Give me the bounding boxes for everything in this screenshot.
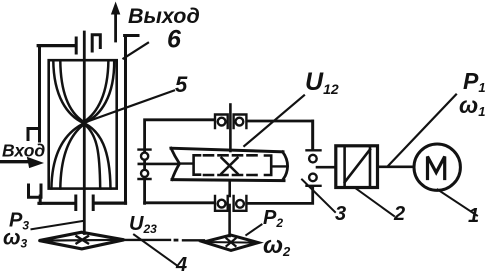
top bearing left (215, 115, 228, 129)
cone curve lower outer-right (84, 123, 110, 188)
variator housing top right stub (125, 34, 138, 37)
dashed box bottom edge (204, 174, 261, 177)
lower clutch right tick (92, 196, 95, 210)
cone curve lower inner-left (60, 124, 84, 188)
svg-text:ω1: ω1 (459, 92, 485, 119)
svg-text:P1: P1 (463, 68, 486, 95)
leader 3 (302, 180, 335, 213)
variator housing bottom horizontal left (39, 202, 75, 205)
differential frame top left (145, 120, 214, 204)
leader P1 (388, 95, 456, 167)
left bearing ticks (139, 150, 151, 179)
differential frame bottom right (248, 188, 313, 203)
differential carrier shaft top (229, 105, 232, 152)
output arrow (114, 10, 117, 41)
coupling box (element 2) (336, 146, 378, 188)
leader P3 (32, 221, 85, 229)
vertical shaft diff to bevel (228, 205, 231, 236)
bevel gear pair right (204, 235, 259, 250)
upper clutch left tick (75, 38, 78, 53)
right bearing circles (309, 155, 317, 163)
cone curve upper outer-right (84, 61, 114, 124)
cone curve lower inner-right (84, 124, 100, 188)
lower clutch left tick (74, 196, 77, 210)
leader 4 (134, 235, 177, 266)
svg-text:5: 5 (175, 72, 188, 97)
sun gear dashed box left bracket (194, 155, 200, 174)
svg-text:3: 3 (335, 203, 346, 225)
gear cross X (222, 158, 238, 174)
inner shaft segment left (180, 162, 194, 164)
variator housing right vertical (124, 37, 127, 204)
leader 2 (356, 189, 394, 217)
differential input shaft left (139, 163, 179, 166)
leader 5 (84, 91, 174, 123)
leader U12 (244, 95, 304, 146)
variator main vertical shaft (83, 32, 86, 234)
svg-text:Вход: Вход (2, 141, 45, 161)
left bearing circles (141, 153, 148, 160)
differential body bottom edge (172, 180, 284, 181)
variator housing left vertical (upper segment) (38, 46, 41, 127)
cone curve upper inner-left (60, 61, 83, 122)
cone curve upper inner-right (84, 61, 108, 122)
shaft differential to coupling (317, 166, 336, 169)
differential body top edge (171, 148, 283, 152)
svg-text:U23: U23 (129, 213, 157, 236)
bevel gear pair left (element 4) (39, 232, 124, 249)
sun gear dashed box right bracket (265, 156, 271, 176)
coupling diagonal (345, 150, 370, 183)
dash-dot shaft line U23 (124, 239, 204, 242)
svg-text:U12: U12 (305, 68, 339, 97)
shaft coupling to motor (378, 166, 415, 169)
cone curve lower outer-left (51, 123, 84, 188)
svg-text:4: 4 (175, 254, 187, 272)
differential body right bulge (283, 152, 288, 179)
inner shaft segment right (272, 165, 288, 167)
svg-text:2: 2 (393, 203, 405, 225)
cone curve upper outer-left (53, 61, 83, 124)
svg-text:1: 1 (468, 205, 479, 227)
bottom bearing right (234, 196, 247, 211)
coupling inner right vertical (369, 147, 372, 188)
upper clutch right hook (92, 35, 100, 51)
svg-text:P2: P2 (263, 207, 283, 230)
top bearing right (234, 115, 247, 129)
dashed box top edge (204, 154, 261, 157)
input clutch lower bracket (29, 185, 42, 197)
coupling inner left vertical (343, 147, 346, 188)
input clutch upper bracket (28, 129, 40, 142)
differential frame right vertical upper (311, 121, 314, 150)
differential frame top right (248, 121, 313, 148)
cone crossing point (81, 120, 86, 125)
variator housing left vertical (lower segment) (39, 196, 42, 204)
motor letter M (428, 157, 445, 179)
leader 6 (123, 43, 148, 59)
svg-text:ω2: ω2 (263, 232, 291, 259)
motor circle M (element 1) (414, 144, 460, 190)
bottom bearing left (215, 196, 228, 211)
variator cone frame rectangle (49, 60, 117, 188)
leader 1 (438, 190, 478, 216)
svg-text:6: 6 (167, 26, 182, 54)
input arrow (0, 160, 31, 163)
variator housing bottom horizontal right (95, 202, 126, 205)
variator housing top horizontal (38, 44, 74, 47)
leader P2 (246, 225, 261, 236)
differential frame bottom left (145, 201, 214, 204)
right bearing ticks (307, 150, 321, 186)
differential carrier shaft bottom (228, 181, 231, 196)
svg-text:Выход: Выход (128, 4, 200, 28)
differential body left notch (171, 148, 180, 179)
